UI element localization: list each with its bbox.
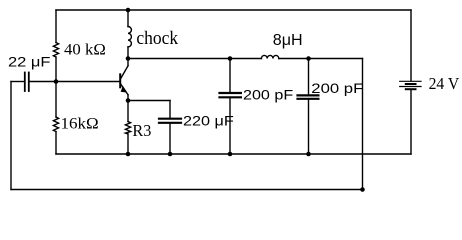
wire 200pF-2 bottom lead bbox=[308, 100, 310, 154]
inductor 8uH bbox=[261, 55, 278, 58]
node R3 bottom junction bbox=[126, 152, 131, 157]
wire 40k bottom to node bbox=[55, 57, 57, 81]
node bottom right junction bbox=[360, 187, 365, 192]
wire battery bottom lead bbox=[410, 90, 412, 154]
wire 16k bottom to rail bbox=[55, 132, 57, 154]
inductor chock bbox=[128, 27, 131, 47]
wire chock bottom bbox=[127, 47, 129, 59]
svg-text:200 pF: 200 pF bbox=[243, 87, 293, 103]
svg-text:8μH: 8μH bbox=[273, 32, 303, 49]
wire 200pF-1 top lead bbox=[229, 59, 231, 92]
node C2 bottom junction bbox=[306, 152, 311, 157]
node base junction bbox=[54, 79, 59, 84]
transistor emitter arrow bbox=[121, 86, 128, 93]
wire bottom rail bbox=[11, 189, 363, 191]
svg-text:200 pF: 200 pF bbox=[311, 80, 363, 96]
wire R3 bottom lead bbox=[127, 134, 129, 154]
capacitor 22uF bbox=[24, 73, 26, 92]
wire emitter horizontal bbox=[128, 100, 170, 102]
wire 220uF top lead bbox=[169, 101, 171, 118]
wire chock branch top bbox=[127, 10, 129, 27]
wire mid rail bbox=[56, 153, 411, 155]
wire base wire bbox=[30, 81, 119, 83]
wire 16k branch upper bbox=[55, 82, 57, 118]
capacitor C1 200pF bbox=[220, 92, 241, 94]
wire collector rail left bbox=[128, 58, 261, 60]
wire input cap left segment bbox=[11, 81, 24, 83]
node C2 top junction bbox=[306, 56, 311, 61]
svg-text:16kΩ: 16kΩ bbox=[61, 114, 99, 133]
wire top rail bbox=[56, 9, 411, 11]
transistor Q1 bbox=[119, 74, 121, 87]
svg-text:chock: chock bbox=[136, 28, 178, 49]
wire left vertical bbox=[10, 82, 12, 190]
resistor 40 kOhm bbox=[53, 43, 58, 58]
svg-text:40 kΩ: 40 kΩ bbox=[64, 42, 106, 59]
node emitter junction bbox=[126, 98, 131, 103]
wire battery top lead bbox=[410, 10, 412, 81]
resistor R3 bbox=[125, 122, 130, 135]
svg-text:R3: R3 bbox=[132, 121, 151, 140]
svg-text:220 μF: 220 μF bbox=[183, 112, 234, 128]
wire collector rail right bbox=[279, 58, 363, 60]
node C1 top junction bbox=[228, 56, 233, 61]
resistor 16kOhm bbox=[53, 117, 58, 132]
capacitor 220uF bbox=[159, 118, 181, 120]
svg-text:22 μF: 22 μF bbox=[8, 55, 51, 70]
wire 200pF-2 top lead bbox=[308, 59, 310, 95]
node C1 bottom junction bbox=[228, 152, 233, 157]
wire 200pF-1 bottom lead bbox=[229, 98, 231, 154]
capacitor C2 200pF bbox=[298, 94, 319, 96]
node top chock junction bbox=[126, 8, 131, 13]
wire R3 top lead bbox=[127, 101, 129, 122]
wire right drop vertical bbox=[362, 59, 364, 190]
svg-text:24 V: 24 V bbox=[429, 74, 460, 93]
battery 24V bbox=[400, 80, 421, 82]
wire 220uF bottom lead bbox=[169, 124, 171, 154]
node 220uF bottom junction bbox=[168, 152, 173, 157]
wire left branch upper bbox=[55, 10, 57, 43]
node collector junction bbox=[126, 56, 131, 61]
